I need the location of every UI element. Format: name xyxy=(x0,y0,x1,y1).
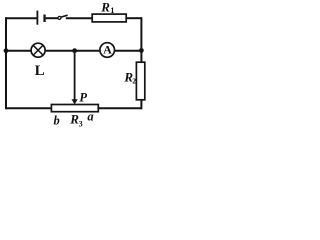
svg-text:b: b xyxy=(54,113,60,127)
svg-text:L: L xyxy=(35,63,45,79)
svg-text:P: P xyxy=(79,90,87,104)
svg-text:a: a xyxy=(87,110,93,124)
svg-text:3: 3 xyxy=(79,119,83,128)
svg-text:1: 1 xyxy=(110,6,114,15)
svg-text:R: R xyxy=(100,0,110,14)
svg-text:2: 2 xyxy=(132,77,136,86)
svg-text:A: A xyxy=(103,43,112,57)
